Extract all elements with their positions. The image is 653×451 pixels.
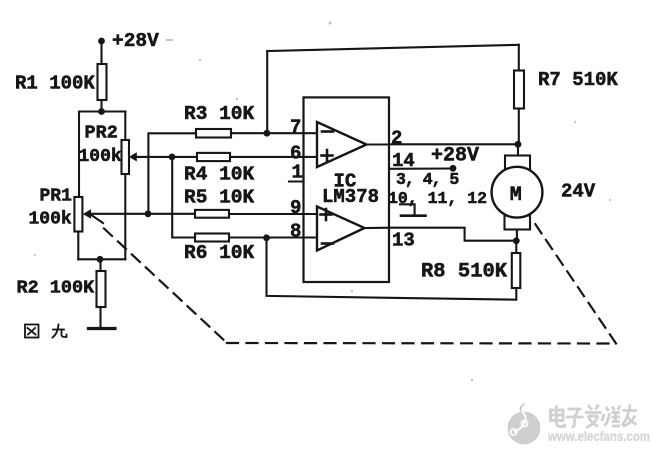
- node PR1 wiper junction: [145, 210, 152, 217]
- wire R3 to pin 7: [231, 132, 317, 134]
- svg-text:100k: 100k: [79, 147, 122, 167]
- svg-text:R2 100K: R2 100K: [17, 278, 96, 299]
- pin 1 underline: [289, 180, 304, 182]
- svg-text:9: 9: [290, 197, 301, 219]
- wire R8 top lead: [515, 241, 517, 253]
- op-amp A plus: [322, 150, 333, 161]
- wire pin 2 to motor node: [389, 143, 518, 145]
- resistor R3: [196, 129, 231, 138]
- svg-text:R1 100K: R1 100K: [15, 73, 95, 95]
- wire R3 left lead and vertical line A down to PR1 wiper node: [148, 133, 196, 214]
- svg-text:PR1: PR1: [40, 187, 73, 207]
- op-amp B plus: [321, 209, 332, 220]
- node pin14 +28V: [450, 165, 457, 172]
- op-amp A triangle: [317, 122, 367, 167]
- svg-text:24V: 24V: [561, 181, 596, 203]
- node motor bottom / R8 / pin13: [513, 237, 520, 244]
- svg-text:1: 1: [292, 162, 303, 184]
- svg-text:R6 10K: R6 10K: [184, 242, 255, 264]
- wire R2 to ground: [99, 307, 101, 328]
- motor M bottom brush: [505, 216, 531, 230]
- wire PR2 wiper to node: [135, 156, 172, 158]
- scan speckles: [34, 22, 611, 382]
- wire R4 left lead: [172, 156, 197, 158]
- wire PR1 lower lead: [77, 232, 79, 260]
- svg-text:R8 510K: R8 510K: [421, 261, 508, 284]
- node +28V supply dot: [98, 38, 105, 45]
- dashed mechanical link left diagonal: [104, 229, 227, 344]
- IC ground bar: [401, 214, 426, 217]
- svg-text:R7 510K: R7 510K: [538, 69, 618, 91]
- dashed mechanical link bottom: [227, 342, 616, 345]
- IC ground stub: [400, 204, 415, 215]
- node divider top: [98, 108, 105, 115]
- wire R5 to pin 9: [229, 213, 317, 215]
- op-amp A minus: [322, 130, 333, 133]
- node pin 8 junction: [263, 234, 270, 241]
- motor M top brush: [505, 156, 530, 170]
- wire R8 bottom feedback to pin8 node: [267, 238, 517, 300]
- dashed mechanical link right diagonal: [534, 222, 617, 344]
- potentiometer PR2: [122, 140, 130, 174]
- PR1 wiper arrow tail diagonal: [92, 216, 103, 224]
- wire PR1 wiper to node: [90, 213, 149, 215]
- svg-text:13: 13: [392, 230, 415, 252]
- resistor R2: [97, 271, 106, 307]
- wire right branch down to PR2: [124, 112, 126, 141]
- label figure 9 (drawn glyphs): [25, 325, 67, 338]
- motor M body circle: [492, 167, 543, 218]
- svg-text:3, 4, 5: 3, 4, 5: [396, 170, 459, 189]
- PR1 wiper arrow: [83, 209, 91, 218]
- svg-text:2: 2: [391, 128, 402, 150]
- svg-text:8: 8: [290, 221, 301, 243]
- wire feedback top rail: [267, 45, 519, 51]
- wire pin 13 to motor bottom: [389, 228, 516, 241]
- svg-text:7: 7: [290, 117, 301, 139]
- svg-text:R5 10K: R5 10K: [184, 187, 255, 209]
- wire feedback vertical to top rail: [266, 51, 268, 133]
- wire top rail to R7: [518, 45, 520, 71]
- svg-text:100k: 100k: [29, 210, 72, 230]
- svg-text:R4 10K: R4 10K: [184, 164, 255, 186]
- svg-text:LM378: LM378: [322, 186, 379, 208]
- wire op-amp B output to pin 13: [365, 227, 390, 229]
- node R3 feedback junction: [264, 130, 271, 137]
- resistor R1: [98, 64, 107, 100]
- wire +28V to R1: [100, 41, 102, 64]
- svg-text:M: M: [510, 184, 522, 207]
- resistor R8: [512, 253, 521, 288]
- wire op-amp A output to pin 2: [367, 143, 390, 145]
- wire left branch down to PR1: [78, 112, 80, 198]
- wire R6 to pin 8: [229, 236, 317, 238]
- svg-text:www.elecfans.com: www.elecfans.com: [547, 429, 650, 444]
- wire motor top lead: [517, 144, 519, 156]
- wire motor bottom lead: [516, 230, 518, 241]
- resistor R7: [514, 71, 524, 109]
- resistor R6: [195, 234, 229, 242]
- wire divider bottom rail: [78, 258, 125, 260]
- wire divider top rail: [79, 110, 125, 112]
- op-amp B minus: [322, 242, 333, 245]
- resistor R4: [197, 153, 230, 161]
- wire R1 to divider top: [100, 100, 102, 112]
- svg-text:+28V: +28V: [112, 30, 159, 52]
- watermark title 电子发烧友 (drawn strokes): [551, 405, 638, 428]
- PR2 wiper arrow: [129, 152, 137, 161]
- op-amp B triangle: [317, 207, 365, 251]
- wire pin 14 to +28V: [389, 167, 453, 169]
- wire R4 to pin 6: [230, 156, 317, 158]
- node bottom rail to R2: [97, 256, 104, 263]
- wire R7 to output node: [518, 109, 520, 145]
- svg-text:R3 10K: R3 10K: [184, 103, 255, 125]
- wire R6 left lead and vertical line B up to PR2 wiper node: [172, 157, 195, 238]
- potentiometer PR1: [74, 197, 82, 232]
- svg-text:PR2: PR2: [85, 123, 118, 144]
- wire R5 left lead: [148, 213, 195, 215]
- ground: [89, 327, 116, 330]
- resistor R5: [195, 210, 229, 218]
- node output pin2 / motor top: [515, 141, 522, 148]
- svg-text:+28V: +28V: [431, 145, 479, 168]
- node PR2 wiper junction: [169, 154, 176, 161]
- wire PR2 below body: [124, 174, 126, 259]
- IC box U1 LM378: [304, 97, 390, 282]
- wire to R2: [99, 259, 101, 271]
- watermark logo circle: [508, 404, 541, 445]
